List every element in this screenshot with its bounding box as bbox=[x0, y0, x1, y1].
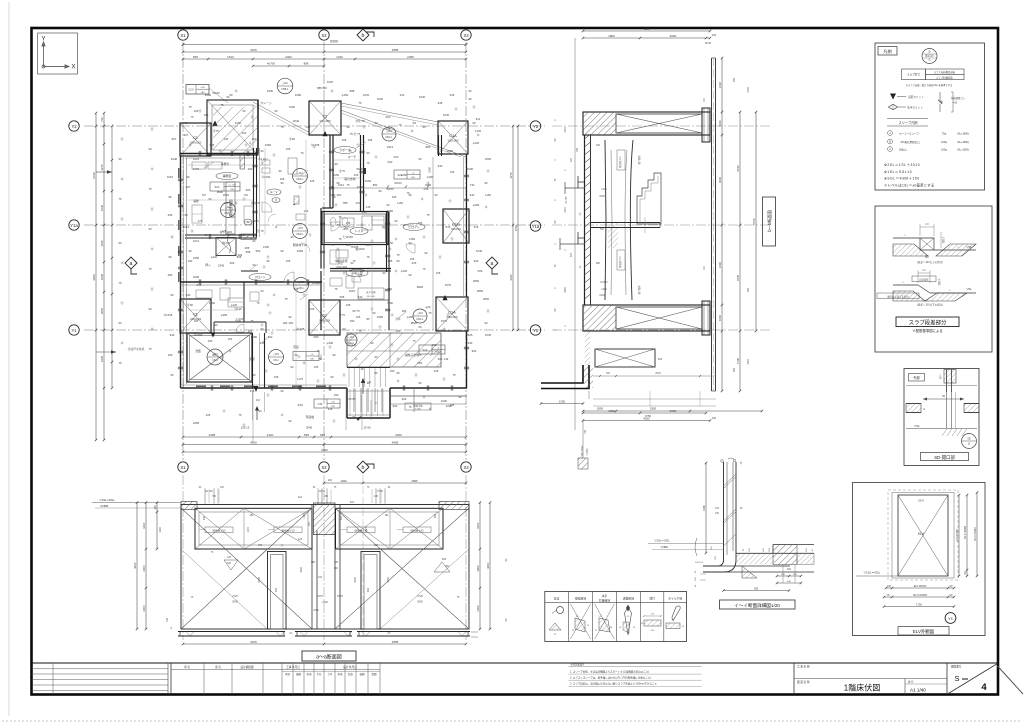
svg-text:⑪: ⑪ bbox=[121, 301, 124, 305]
aa body outline bbox=[181, 505, 469, 630]
svg-text:タイル下地: タイル下地 bbox=[668, 597, 682, 601]
svg-text:90: 90 bbox=[374, 121, 378, 125]
svg-text:2445: 2445 bbox=[100, 355, 104, 362]
title block left table bbox=[32, 668, 169, 670]
svg-text:①1030: ①1030 bbox=[262, 175, 271, 179]
svg-text:※2SL＝1SL＋3310: ※2SL＝1SL＋3310 bbox=[884, 163, 920, 167]
svg-text:Y1: Y1 bbox=[948, 616, 954, 621]
slab mark circle 5 bbox=[382, 127, 396, 141]
svg-text:⑪: ⑪ bbox=[487, 169, 490, 173]
grid marker b top bbox=[357, 29, 374, 41]
svg-text:⑪: ⑪ bbox=[447, 313, 450, 317]
svg-text:165: 165 bbox=[354, 245, 359, 249]
svg-text:⑪: ⑪ bbox=[121, 217, 124, 221]
svg-text:90: 90 bbox=[148, 147, 152, 151]
slab diagram upper dims bbox=[919, 224, 921, 236]
svg-text:4000: 4000 bbox=[387, 577, 390, 583]
svg-text:1545: 1545 bbox=[100, 204, 104, 211]
svg-text:460: 460 bbox=[224, 201, 229, 205]
svg-text:⑪: ⑪ bbox=[273, 153, 276, 157]
aa caption box bbox=[302, 651, 356, 661]
svg-text:事務: 事務 bbox=[193, 199, 199, 203]
ii bottom slab lines bbox=[703, 565, 790, 567]
svg-text:⑪: ⑪ bbox=[371, 239, 374, 243]
svg-text:90: 90 bbox=[434, 193, 438, 197]
svg-text:伸縮目地: 伸縮目地 bbox=[575, 597, 586, 601]
plan bottom dimension subdivision bbox=[183, 436, 466, 438]
svg-text:180: 180 bbox=[402, 309, 407, 313]
svg-text:665: 665 bbox=[340, 295, 345, 299]
svg-text:880: 880 bbox=[426, 145, 431, 149]
svg-text:W150: W150 bbox=[386, 187, 394, 191]
bb stair profile bbox=[637, 173, 661, 224]
svg-text:⑫: ⑫ bbox=[151, 327, 154, 331]
svg-text:排気口: 排気口 bbox=[899, 148, 907, 152]
svg-text:150φ: 150φ bbox=[941, 149, 947, 152]
title number diagonal bbox=[948, 664, 998, 695]
svg-text:#180: #180 bbox=[205, 93, 212, 97]
svg-text:900: 900 bbox=[402, 397, 407, 401]
svg-text:仁W150: 仁W150 bbox=[343, 235, 354, 239]
hanrei slab code table bbox=[902, 69, 926, 80]
svg-text:90: 90 bbox=[396, 371, 400, 375]
svg-text:C2: C2 bbox=[322, 314, 327, 318]
svg-text:F63: F63 bbox=[240, 233, 245, 237]
bb middle wall curved strip bbox=[605, 140, 606, 300]
svg-text:⑪: ⑪ bbox=[243, 197, 246, 201]
svg-text:全住戸全金具: 全住戸全金具 bbox=[128, 347, 145, 351]
bath room with cross bbox=[187, 333, 252, 382]
svg-text:1545: 1545 bbox=[100, 240, 104, 247]
svg-text:740: 740 bbox=[450, 170, 455, 174]
svg-text:承 包: 承 包 bbox=[184, 665, 190, 669]
aa bottom dims bbox=[183, 643, 466, 645]
svg-text:3545: 3545 bbox=[306, 426, 313, 430]
svg-text:主任: 主任 bbox=[316, 672, 322, 676]
hanrei sleeve title bbox=[887, 118, 928, 120]
svg-text:⑪75: ⑪75 bbox=[339, 313, 345, 317]
toilet block walls bbox=[322, 207, 333, 209]
svg-text:⑫: ⑫ bbox=[275, 225, 278, 229]
svg-text:2345: 2345 bbox=[235, 319, 242, 323]
svg-text:⑫: ⑫ bbox=[313, 145, 316, 149]
svg-text:②1080: ②1080 bbox=[312, 281, 321, 285]
corridor thin line x259 bbox=[259, 148, 261, 237]
svg-text:⑪90: ⑪90 bbox=[289, 137, 295, 141]
svg-text:90: 90 bbox=[148, 227, 152, 231]
svg-text:⑫: ⑫ bbox=[411, 129, 414, 133]
svg-text:90: 90 bbox=[184, 121, 188, 125]
scattered dimension texts in plan bbox=[164, 89, 484, 430]
svg-text:601×401: 601×401 bbox=[367, 295, 376, 298]
svg-text:#100: #100 bbox=[267, 89, 274, 93]
boxed level note 3 bbox=[394, 170, 420, 179]
svg-text:⑪: ⑪ bbox=[357, 143, 360, 147]
sd horizontal line bbox=[906, 385, 977, 387]
title scale cell bbox=[904, 679, 906, 695]
interior fixture small rects bbox=[240, 155, 245, 169]
svg-text:⑫: ⑫ bbox=[121, 261, 124, 265]
svg-text:90: 90 bbox=[472, 121, 476, 125]
interior wall v x258 bbox=[257, 100, 259, 153]
aa footing end triangles bbox=[186, 632, 194, 637]
office bottom wall y236 bbox=[185, 234, 257, 236]
svg-text:B1: B1 bbox=[250, 513, 254, 517]
svg-text:595: 595 bbox=[304, 433, 309, 437]
corner cut mark bottom-right bbox=[998, 666, 1024, 694]
svg-text:201 145: 201 145 bbox=[283, 321, 294, 325]
top-left boxed level note bbox=[186, 85, 209, 95]
svg-text:SD-5 H2600: SD-5 H2600 bbox=[964, 525, 967, 539]
svg-text:工事 年月日: 工事 年月日 bbox=[286, 665, 300, 669]
svg-text:316: 316 bbox=[256, 399, 261, 402]
column C1 top-left bbox=[180, 123, 211, 156]
svg-text:⑫: ⑫ bbox=[395, 269, 398, 273]
svg-text:165: 165 bbox=[342, 138, 347, 142]
svg-text:260: 260 bbox=[242, 131, 247, 135]
svg-text:S2A: S2A bbox=[215, 185, 220, 189]
svg-text:Y1: Y1 bbox=[71, 328, 77, 333]
svg-text:⑪: ⑪ bbox=[199, 109, 202, 113]
svg-text:F675: F675 bbox=[337, 594, 343, 598]
svg-text:b: b bbox=[362, 33, 365, 39]
svg-text:承認: 承認 bbox=[285, 672, 291, 676]
svg-text:888: 888 bbox=[350, 89, 355, 93]
svg-text:S2: S2 bbox=[297, 355, 301, 359]
svg-text:②1945: ②1945 bbox=[296, 327, 305, 331]
svg-text:※SGL＝KBM＋150: ※SGL＝KBM＋150 bbox=[884, 177, 920, 181]
svg-text:90: 90 bbox=[188, 249, 192, 253]
aa footing hatch marks small bbox=[224, 560, 238, 570]
svg-text:625: 625 bbox=[388, 259, 393, 263]
svg-text:75: 75 bbox=[366, 161, 370, 165]
svg-text:⑫: ⑫ bbox=[303, 361, 306, 365]
grid circle Y2 left bbox=[69, 121, 79, 131]
svg-text:⑪: ⑪ bbox=[269, 311, 272, 315]
svg-text:2725: 2725 bbox=[417, 594, 423, 598]
svg-text:2300: 2300 bbox=[313, 609, 319, 612]
svg-text:B25: B25 bbox=[442, 558, 447, 561]
svg-text:凡例: 凡例 bbox=[883, 48, 891, 55]
svg-text:90: 90 bbox=[468, 97, 472, 101]
stair bay walls bbox=[346, 388, 348, 418]
svg-text:880: 880 bbox=[596, 262, 601, 265]
aa center column hatched bbox=[314, 503, 336, 535]
sd gaibu label bbox=[909, 374, 925, 382]
svg-text:330: 330 bbox=[358, 295, 363, 299]
svg-text:a〜a断面図: a〜a断面図 bbox=[316, 654, 342, 661]
svg-text:90: 90 bbox=[280, 181, 284, 185]
svg-text:#150: #150 bbox=[333, 173, 340, 177]
svg-text:150: 150 bbox=[584, 429, 587, 434]
svg-text:165: 165 bbox=[434, 369, 439, 373]
svg-text:90: 90 bbox=[418, 381, 422, 385]
svg-text:90: 90 bbox=[280, 389, 284, 393]
svg-text:201: 201 bbox=[356, 201, 361, 205]
svg-text:3270: 3270 bbox=[100, 164, 104, 171]
svg-text:75: 75 bbox=[318, 357, 322, 361]
svg-text:90: 90 bbox=[186, 175, 190, 179]
svg-text:316: 316 bbox=[328, 407, 333, 411]
svg-text:クーラースリーブ: クーラースリーブ bbox=[899, 132, 919, 136]
svg-text:940: 940 bbox=[186, 293, 191, 297]
svg-text:165: 165 bbox=[450, 403, 455, 407]
svg-text:(SL+1350): (SL+1350) bbox=[957, 149, 969, 152]
svg-text:574: 574 bbox=[570, 252, 573, 257]
svg-text:▽1SL＝SGL: ▽1SL＝SGL bbox=[864, 571, 881, 575]
svg-text:1420: 1420 bbox=[601, 188, 607, 191]
svg-text:90 190: 90 190 bbox=[205, 490, 213, 493]
svg-text:t=25: t=25 bbox=[953, 102, 958, 105]
sd caption box bbox=[921, 453, 969, 461]
svg-text:φ100: φ100 bbox=[473, 141, 480, 145]
svg-text:1750: 1750 bbox=[916, 603, 922, 607]
grid line X3 bbox=[465, 42, 467, 460]
window tick marks on outer walls bbox=[196, 385, 206, 387]
plan interior helper thin lines bbox=[305, 140, 307, 388]
room label locker bbox=[244, 219, 252, 225]
svg-text:⑪: ⑪ bbox=[397, 357, 400, 361]
elv Y1 circle bbox=[945, 613, 956, 624]
svg-text:2040: 2040 bbox=[293, 119, 300, 123]
grid circle Y1 left bbox=[69, 325, 79, 335]
svg-text:90: 90 bbox=[229, 93, 233, 97]
svg-text:5190: 5190 bbox=[736, 165, 740, 172]
svg-text:X2: X2 bbox=[321, 465, 327, 470]
svg-text:90: 90 bbox=[366, 151, 370, 155]
svg-text:Y2: Y2 bbox=[71, 124, 77, 129]
svg-text:460: 460 bbox=[246, 188, 251, 192]
svg-text:⑫: ⑫ bbox=[477, 133, 480, 137]
svg-text:⑪: ⑪ bbox=[251, 115, 254, 119]
svg-text:104: 104 bbox=[304, 209, 309, 213]
plan top small dims near C2 bbox=[253, 65, 324, 67]
svg-text:4615: 4615 bbox=[250, 48, 257, 52]
svg-text:1015: 1015 bbox=[193, 157, 200, 161]
svg-text:1040: 1040 bbox=[476, 249, 483, 253]
slab mark circle 7 bbox=[413, 309, 427, 323]
hanrei bracket diagram bbox=[939, 92, 941, 112]
svg-text:φ150: φ150 bbox=[221, 313, 228, 317]
svg-text:90: 90 bbox=[424, 251, 428, 255]
svg-text:265: 265 bbox=[168, 213, 173, 217]
slab diagram lower dims bbox=[917, 270, 919, 283]
hanrei box bbox=[875, 43, 985, 190]
svg-text:▽SL: ▽SL bbox=[966, 287, 972, 291]
UP arrow stairs bbox=[362, 380, 364, 394]
svg-text:1030: 1030 bbox=[377, 97, 384, 101]
svg-text:⑪: ⑪ bbox=[415, 373, 418, 377]
svg-text:4615: 4615 bbox=[250, 441, 257, 445]
svg-text:6720: 6720 bbox=[92, 172, 96, 179]
svg-text:105: 105 bbox=[715, 507, 720, 510]
svg-text:150: 150 bbox=[715, 512, 720, 515]
svg-text:142: 142 bbox=[444, 357, 449, 361]
svg-text:4685: 4685 bbox=[392, 640, 399, 644]
svg-text:E・V: E・V bbox=[270, 190, 277, 194]
svg-text:90: 90 bbox=[184, 213, 188, 217]
svg-text:2650: 2650 bbox=[473, 279, 480, 283]
svg-text:意匠スリット: 意匠スリット bbox=[908, 95, 924, 99]
svg-text:1093: 1093 bbox=[747, 359, 750, 365]
svg-text:600: 600 bbox=[203, 515, 206, 520]
roof slope line 2 bbox=[341, 103, 438, 122]
svg-text:1000x1050: 1000x1050 bbox=[319, 121, 331, 123]
bb section left boundary line bbox=[574, 38, 576, 430]
svg-text:1040: 1040 bbox=[336, 55, 343, 59]
svg-text:UB-1: UB-1 bbox=[212, 359, 218, 362]
svg-text:誠格子金物: 誠格子金物 bbox=[405, 353, 419, 357]
svg-text:340: 340 bbox=[400, 93, 405, 97]
svg-text:780: 780 bbox=[212, 495, 217, 498]
sheet edge shading bbox=[8, 2, 10, 716]
svg-text:F61: F61 bbox=[658, 357, 663, 361]
column C2 bottom bbox=[309, 300, 340, 335]
svg-text:75: 75 bbox=[300, 151, 304, 155]
svg-text:⑫: ⑫ bbox=[331, 89, 334, 93]
svg-text:1000x1000: 1000x1000 bbox=[190, 142, 202, 144]
svg-text:⑪75: ⑪75 bbox=[339, 169, 345, 173]
bb vertical label box bbox=[763, 197, 776, 246]
bb right tall wall lines bbox=[711, 58, 713, 391]
svg-text:検図: 検図 bbox=[359, 672, 365, 676]
svg-text:75: 75 bbox=[118, 197, 122, 201]
elv right dim chains bbox=[958, 495, 960, 576]
svg-text:2445: 2445 bbox=[564, 207, 567, 213]
svg-text:押入: 押入 bbox=[205, 263, 211, 267]
svg-text:90: 90 bbox=[148, 307, 152, 311]
svg-text:⑫: ⑫ bbox=[189, 143, 192, 147]
svg-text:4685: 4685 bbox=[392, 441, 399, 445]
svg-text:90: 90 bbox=[418, 325, 422, 329]
svg-text:150: 150 bbox=[334, 393, 339, 397]
svg-text:#1700: #1700 bbox=[267, 62, 275, 66]
svg-text:⑪: ⑪ bbox=[329, 345, 332, 349]
svg-text:⑪: ⑪ bbox=[299, 185, 302, 189]
svg-text:100φ: 100φ bbox=[941, 141, 947, 144]
svg-text:W900: W900 bbox=[223, 194, 230, 197]
svg-text:⑪: ⑪ bbox=[389, 247, 392, 251]
svg-text:90: 90 bbox=[290, 365, 294, 369]
svg-text:a: a bbox=[491, 261, 494, 267]
svg-text:210: 210 bbox=[328, 479, 333, 482]
svg-text:1600: 1600 bbox=[599, 294, 605, 297]
bb mid slab at Y1B bbox=[591, 222, 660, 224]
svg-text:Y: Y bbox=[41, 37, 45, 43]
svg-text:X1: X1 bbox=[180, 465, 186, 470]
svg-text:601×401: 601×401 bbox=[337, 265, 348, 269]
column C1 bottom-left bbox=[180, 299, 211, 333]
svg-text:⑫: ⑫ bbox=[267, 303, 270, 307]
office furniture bbox=[192, 162, 206, 169]
svg-text:2320: 2320 bbox=[267, 433, 274, 437]
svg-text:※1SL＝SGL±0: ※1SL＝SGL±0 bbox=[884, 170, 912, 174]
svg-text:C1: C1 bbox=[193, 136, 198, 140]
svg-text:1175: 1175 bbox=[317, 594, 323, 598]
svg-text:ELV: ELV bbox=[918, 532, 925, 536]
svg-text:(段差＝100以上の場合): (段差＝100以上の場合) bbox=[917, 260, 943, 264]
svg-text:425: 425 bbox=[227, 556, 232, 559]
plan right dim chain outer bbox=[517, 126, 519, 330]
ii caption box bbox=[720, 600, 796, 609]
svg-text:△110: △110 bbox=[225, 206, 231, 209]
svg-text:C1A: C1A bbox=[448, 311, 456, 315]
slab mark circle 1 bbox=[293, 169, 308, 184]
svg-text:165: 165 bbox=[356, 315, 361, 319]
bb top dim 1800/2600/100 bbox=[583, 37, 710, 39]
svg-text:縮 尺: 縮 尺 bbox=[908, 680, 914, 684]
section marker a left bbox=[125, 257, 137, 274]
svg-text:100: 100 bbox=[166, 617, 169, 622]
grid circle Y1 right bbox=[530, 325, 540, 335]
svg-text:90: 90 bbox=[208, 197, 212, 201]
svg-text:⑫: ⑫ bbox=[355, 357, 358, 361]
svg-text:90: 90 bbox=[214, 323, 218, 327]
svg-text:⑫: ⑫ bbox=[219, 149, 222, 153]
sd detail circle bbox=[962, 434, 977, 449]
svg-text:1090: 1090 bbox=[340, 479, 347, 483]
svg-text:3000: 3000 bbox=[354, 577, 357, 583]
svg-text:※配筋基準図による: ※配筋基準図による bbox=[912, 328, 942, 333]
svg-text:75: 75 bbox=[406, 191, 410, 195]
svg-text:W150: W150 bbox=[394, 181, 402, 185]
svg-text:435: 435 bbox=[334, 561, 339, 564]
svg-text:⑭: ⑭ bbox=[275, 198, 278, 202]
wall tick pairs bbox=[198, 151, 200, 156]
svg-text:90: 90 bbox=[260, 327, 264, 331]
interior corridor wall v x331 bbox=[329, 135, 331, 208]
svg-text:1545: 1545 bbox=[564, 127, 567, 133]
svg-text:165: 165 bbox=[310, 179, 315, 183]
plan left dim chain inner bbox=[103, 113, 105, 440]
svg-text:75: 75 bbox=[412, 339, 416, 343]
svg-text:ELV外観図: ELV外観図 bbox=[913, 628, 935, 635]
finish cell tile base bbox=[672, 606, 680, 620]
svg-text:図面番号: 図面番号 bbox=[951, 665, 962, 669]
finish cell expansion joint bbox=[570, 604, 590, 639]
bb beam Y1 right column bbox=[702, 301, 710, 335]
svg-text:⑫: ⑫ bbox=[151, 247, 154, 251]
svg-text:900x1000: 900x1000 bbox=[451, 229, 462, 231]
axis icon arrows bbox=[42, 42, 69, 68]
svg-text:F2: F2 bbox=[702, 266, 706, 270]
aa grid dash X1 bbox=[182, 475, 184, 640]
svg-text:2000: 2000 bbox=[655, 372, 661, 375]
svg-text:#150: #150 bbox=[387, 241, 394, 245]
svg-text:90: 90 bbox=[372, 311, 376, 315]
svg-text:SD: SD bbox=[967, 437, 971, 441]
svg-text:165: 165 bbox=[366, 243, 371, 247]
svg-text:1350: 1350 bbox=[193, 256, 200, 260]
svg-text:W150: W150 bbox=[356, 167, 364, 171]
wall junction hatch bbox=[241, 234, 256, 240]
svg-text:180: 180 bbox=[576, 147, 579, 152]
svg-text:75: 75 bbox=[366, 255, 370, 259]
svg-text:90: 90 bbox=[350, 261, 354, 265]
column C1A top-right bbox=[438, 121, 468, 154]
svg-text:⑪: ⑪ bbox=[235, 201, 238, 205]
aa small top ticks bbox=[204, 488, 206, 504]
svg-text:90: 90 bbox=[204, 233, 208, 237]
svg-text:90: 90 bbox=[170, 293, 174, 297]
boxed level note 1 bbox=[210, 182, 240, 191]
svg-text:260: 260 bbox=[254, 219, 259, 223]
svg-text:φ100: φ100 bbox=[401, 269, 408, 273]
dim 316 below bbox=[252, 392, 254, 420]
slab mark circle 6 bbox=[269, 350, 284, 365]
svg-text:657: 657 bbox=[202, 194, 207, 197]
svg-text:90: 90 bbox=[274, 109, 278, 113]
